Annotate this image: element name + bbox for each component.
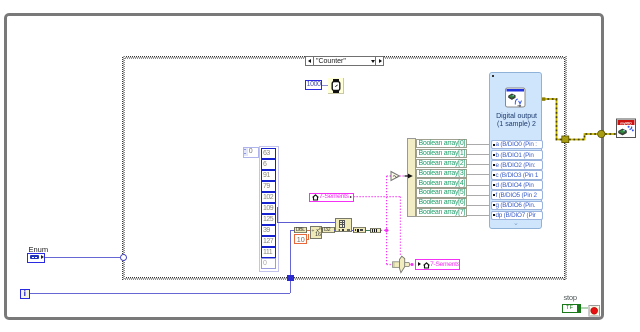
pink wire vertical main — [386, 176, 388, 265]
global variable read 7-Sements — [309, 193, 354, 202]
wait (ms) function — [328, 78, 344, 94]
Enum constant — [27, 253, 45, 263]
dynamic-to-boolean triangle — [391, 172, 400, 181]
wire n2b out pink — [381, 229, 386, 231]
digital output express icon — [506, 88, 526, 107]
digital output express VI block — [489, 72, 542, 229]
case selector label "Counter" — [305, 56, 384, 67]
wire 1000 to wait — [322, 85, 328, 86]
wire i horizontal — [30, 293, 290, 294]
olive tunnel on loop border — [598, 130, 605, 137]
wire i vertical to tunnel — [290, 280, 291, 293]
tunnel on case bottom — [287, 275, 294, 282]
global read 7-Sements wire — [354, 196, 401, 198]
black arrowhead into boolean bar — [408, 174, 413, 179]
wire DBL to QR (orange) — [307, 230, 310, 231]
case structure border right — [564, 56, 567, 280]
olive device wire from DO block — [543, 99, 617, 140]
pink wire vertical 2 — [399, 197, 401, 257]
pink wire funnel to global write — [409, 264, 415, 266]
case structure border top — [122, 56, 567, 59]
number to boolean array node — [353, 227, 366, 233]
numeric constant 1000 — [305, 80, 322, 90]
wire enum to case selector — [45, 257, 120, 258]
pink wire triangle to array bar — [400, 175, 408, 177]
numeric constant 10 — [294, 234, 307, 245]
case structure border left — [122, 56, 125, 280]
convert to dynamic data node — [370, 228, 381, 234]
DO rows — [491, 140, 543, 150]
stop wire — [581, 307, 588, 309]
myRIO device icon — [617, 119, 636, 138]
stop boolean terminal — [562, 304, 581, 314]
wire array out vertical — [277, 207, 278, 223]
wait(ms) watch icon — [332, 79, 340, 93]
boolean array row labels — [416, 139, 468, 148]
Enum label — [29, 245, 49, 254]
wire 10 to QR (orange) — [307, 239, 309, 240]
wire I32 to index array (blue) — [334, 230, 336, 231]
wire i inside case vertical — [290, 230, 291, 275]
wire index array to n2b — [352, 230, 353, 231]
array index display — [243, 147, 259, 158]
boolean index bar — [407, 138, 416, 217]
loop condition terminal — [589, 306, 600, 317]
conversion node DBL — [294, 227, 307, 234]
wire i to DBL — [290, 230, 294, 231]
svg-text:myRIO: myRIO — [620, 121, 632, 125]
case structure border bottom — [122, 277, 567, 280]
wires boolean rows to DO rows — [467, 144, 491, 145]
wire array out horizontal — [277, 222, 336, 223]
iteration terminal i — [20, 289, 30, 299]
array constant shell — [259, 146, 279, 272]
convert from dynamic data funnel — [393, 256, 410, 273]
pink junction diamond — [384, 228, 389, 233]
index array node — [335, 218, 352, 233]
DO output terminal nub — [542, 97, 545, 100]
olive tunnel on case border — [562, 136, 569, 143]
case selector tunnel — [120, 254, 127, 261]
pink wire to triangle — [387, 175, 391, 177]
array elements — [261, 148, 276, 159]
wire n2b to dyn (teal) — [366, 230, 370, 231]
conversion node I32 — [322, 227, 335, 234]
global variable write 7-Sements — [415, 259, 460, 270]
pink wire into funnel — [387, 264, 393, 266]
quotient-remainder node — [310, 226, 322, 239]
stop label — [564, 293, 577, 302]
